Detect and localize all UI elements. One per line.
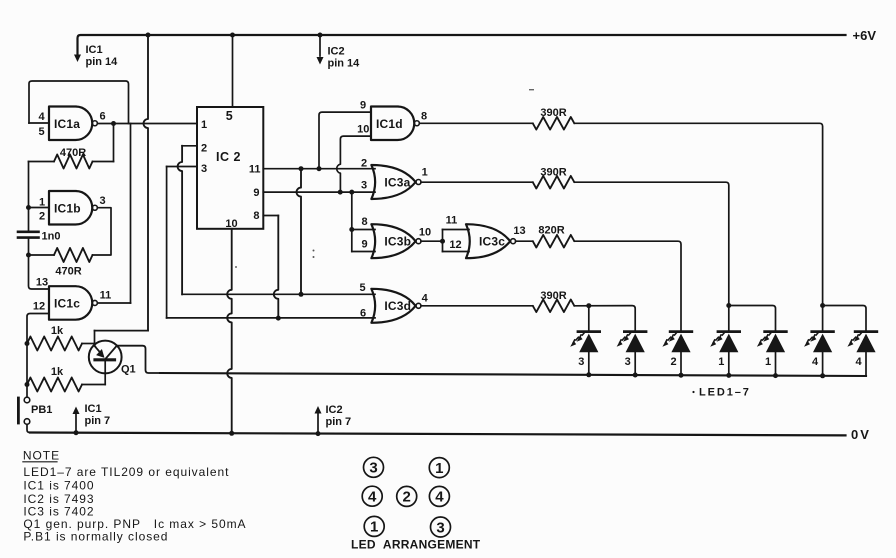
wire IC1d output to 390R <box>419 122 532 124</box>
wire IC1b output to 470R (lower) <box>93 208 112 255</box>
svg-text:IC1b: IC1b <box>54 201 81 215</box>
junction IC3b pin 8 stub <box>349 227 354 232</box>
wire IC2 pin 5 from +6V rail <box>232 35 234 107</box>
arrangement circle 3 <box>431 517 451 537</box>
wire +6V supply rail <box>78 35 846 54</box>
svg-text:5: 5 <box>226 109 233 123</box>
junction LED1a feed <box>726 303 731 308</box>
svg-text:2: 2 <box>403 489 411 506</box>
svg-text:12: 12 <box>33 301 45 313</box>
svg-text:PB1: PB1 <box>31 404 52 416</box>
svg-text:2: 2 <box>39 211 45 223</box>
svg-text:10: 10 <box>357 124 369 136</box>
svg-text:3: 3 <box>99 195 105 207</box>
wire IC1d pin 9 down to pin11 node <box>319 112 371 169</box>
wire IC1a output / clock node to IC2 pin 1 <box>97 123 196 125</box>
svg-text:11: 11 <box>446 215 458 227</box>
wire IC2 pin 2 to IC3d pin 5 net (vertical, hops pin3 wire) <box>182 145 197 147</box>
IC IC2 (7493 counter) body <box>197 107 263 229</box>
svg-text:820R: 820R <box>538 225 564 237</box>
svg-text:IC1: IC1 <box>85 403 102 415</box>
resistor 1k (upper, Q1 emitter) <box>27 337 82 351</box>
svg-text:3: 3 <box>361 180 367 192</box>
junction LED3a feed <box>586 303 591 308</box>
transistor Q1 (PNP) <box>89 341 122 374</box>
NOR gate IC3c <box>466 224 510 258</box>
wire IC1d pin 10 down to pin9 node (hops pin2-of-IC3a wire) <box>337 136 371 192</box>
svg-text:6: 6 <box>360 307 366 319</box>
wire 390R row2 to LED1 pair <box>574 182 729 305</box>
wire IC2 pin 9 to IC3a pin 3 <box>263 191 375 193</box>
NAND gate IC1c <box>49 286 92 320</box>
svg-text:5: 5 <box>359 282 365 294</box>
wire IC2 pin 10 to 0V (hops three horizontals) <box>227 229 232 433</box>
NOR gate IC3d <box>371 289 415 323</box>
svg-text:2: 2 <box>201 143 207 155</box>
NOR gate IC3a <box>371 165 415 199</box>
arrangement circle 4 <box>429 486 449 506</box>
svg-text:3: 3 <box>436 519 444 536</box>
svg-text:390R: 390R <box>540 290 566 302</box>
wire IC3b output to IC3c tied inputs <box>421 240 443 242</box>
NAND gate IC1d <box>371 107 414 141</box>
wire IC1a feedback loop (output to input) <box>29 81 129 124</box>
svg-text:NOTE: NOTE <box>23 449 60 463</box>
junction 1k lower / PB1 column <box>25 382 30 387</box>
wire LED1 pair link <box>729 306 776 332</box>
wire IC1c output pin 11 up to clock node <box>97 302 130 304</box>
svg-text:1k: 1k <box>51 325 64 337</box>
wire PB1 to 0V rail <box>27 424 33 432</box>
svg-text:0V: 0V <box>851 427 871 442</box>
LED cathode bus (to Q1 collector) <box>160 373 866 376</box>
svg-text:IC1a: IC1a <box>54 117 80 131</box>
resistor 470R (lower oscillator) <box>29 254 55 256</box>
svg-text:IC3d: IC3d <box>384 299 411 313</box>
svg-text:LED ARRANGEMENT: LED ARRANGEMENT <box>351 538 481 552</box>
arrangement circle 4 <box>362 486 382 506</box>
wire Q1 collector to LED cathode bus <box>117 346 160 373</box>
wire IC1c pin 12 to PB1 column <box>27 314 49 398</box>
resistor 390R (row 4, LED3 pair) <box>533 300 575 313</box>
svg-text:4: 4 <box>368 489 377 506</box>
resistor 390R (row 2, LED1 pair) <box>533 176 575 189</box>
svg-text:13: 13 <box>513 225 525 237</box>
svg-text:IC 2: IC 2 <box>216 150 241 164</box>
junction 1k upper / PB1 column <box>25 341 30 346</box>
svg-text:IC3b: IC3b <box>384 235 411 249</box>
svg-text:9: 9 <box>253 187 259 199</box>
resistor 390R (row 1, LED4 pair) <box>533 117 575 130</box>
svg-text:1k: 1k <box>51 366 64 378</box>
scan speck dash <box>529 89 534 90</box>
wire left oscillator column (470R to IC1b input to C1) <box>28 162 30 232</box>
svg-text:1: 1 <box>435 460 443 477</box>
svg-text:390R: 390R <box>540 166 566 178</box>
svg-text:3: 3 <box>578 356 584 368</box>
IC1 pin 14 supply arrow <box>74 55 81 63</box>
svg-text:470R: 470R <box>60 147 86 159</box>
junction pin11 / IC1d pin 9 vertical <box>317 166 322 171</box>
junction C1 / 470R lower <box>26 253 31 258</box>
switch PB1 (push-button, normally closed) <box>24 397 30 403</box>
resistor 1k (lower, Q1 base) <box>27 378 82 392</box>
wire 820R to LED2 <box>574 241 681 331</box>
junction pin9 wire / IC3b input vertical <box>349 190 354 195</box>
IC2 pin 14 supply arrow <box>318 33 323 38</box>
svg-text:LED1–7 are TIL209 or equivalen: LED1–7 are TIL209 or equivalent <box>23 465 229 479</box>
svg-text:3: 3 <box>201 163 207 175</box>
svg-text:IC1d: IC1d <box>376 117 403 131</box>
LED 3 (first) <box>578 330 600 333</box>
svg-text:4: 4 <box>422 293 429 305</box>
arrangement circle 1 <box>429 458 449 478</box>
wire C1 bottom node to IC1c pin 13 <box>29 255 50 289</box>
svg-text:3: 3 <box>369 460 377 477</box>
junction pin9 wire / IC1d pin10 vertical <box>338 190 343 195</box>
capacitor C1 1n0 <box>18 231 39 234</box>
svg-text:P.B1 is normally closed: P.B1 is normally closed <box>23 530 168 544</box>
svg-text:10: 10 <box>419 227 431 239</box>
arrangement circle 1 <box>364 516 384 536</box>
svg-text:13: 13 <box>36 277 48 289</box>
svg-text:1n0: 1n0 <box>42 231 61 243</box>
svg-text:IC3a: IC3a <box>384 175 410 189</box>
svg-text:8: 8 <box>253 210 259 222</box>
junction IC1b input node <box>26 205 31 210</box>
wire LED4 pair link <box>823 306 866 332</box>
wire IC2 pin 11 to IC3a pin 2 <box>263 168 375 170</box>
junction LED4a feed <box>820 303 825 308</box>
LED 1 (second) <box>765 330 787 333</box>
scan speck colon <box>313 250 315 252</box>
resistor 820R (row 3, LED2) <box>533 235 575 248</box>
junction +6V / Q1 emitter feed <box>146 33 151 38</box>
wire +6V to Q1 emitter (long vertical, hops clock line) <box>144 35 149 331</box>
svg-text:1: 1 <box>422 166 428 178</box>
IC1 pin 7 ground arrow <box>74 430 79 435</box>
svg-text:1: 1 <box>370 519 378 536</box>
wire IC3a output to 390R <box>421 181 533 183</box>
svg-text:Q1: Q1 <box>121 364 136 376</box>
svg-text:3: 3 <box>625 356 631 368</box>
svg-text:IC1: IC1 <box>86 44 103 56</box>
svg-text:IC1c: IC1c <box>54 296 80 310</box>
svg-text:11: 11 <box>249 164 261 176</box>
svg-text:390R: 390R <box>540 107 566 119</box>
junction +6V / IC2 pin 5 <box>230 33 235 38</box>
wire IC1c output up to clock node <box>130 124 132 304</box>
wire IC3d output to 390R <box>421 305 533 307</box>
svg-text:4: 4 <box>435 489 444 506</box>
svg-text:4: 4 <box>812 356 819 368</box>
junction IC1a output node <box>111 121 116 126</box>
svg-text:1: 1 <box>718 356 724 368</box>
svg-text:9: 9 <box>361 239 367 251</box>
LED 4 (first) <box>812 330 834 333</box>
svg-text:IC2: IC2 <box>326 404 343 416</box>
wire 390R row1 to LED4 pair <box>574 123 822 305</box>
svg-text:1: 1 <box>39 196 45 208</box>
wire IC3d pin 5 net horizontal <box>182 293 375 295</box>
svg-text:pin 14: pin 14 <box>328 58 361 70</box>
svg-text:6: 6 <box>99 111 105 123</box>
wire IC3d pin 6 net horizontal <box>167 317 375 319</box>
svg-text:IC1 is 7400: IC1 is 7400 <box>23 479 94 493</box>
svg-text:9: 9 <box>360 100 366 112</box>
svg-text:pin 14: pin 14 <box>86 56 119 68</box>
svg-text:pin 7: pin 7 <box>85 415 111 427</box>
svg-text:LED1–7: LED1–7 <box>699 387 751 399</box>
svg-text:12: 12 <box>449 239 461 251</box>
svg-text:4: 4 <box>38 111 45 123</box>
svg-text:11: 11 <box>100 290 112 302</box>
arrangement circle 3 <box>364 457 384 477</box>
wire pin11 node down to IC3d pin5 net (hops pin9 wire) <box>297 169 301 295</box>
wire IC3c output to 820R <box>516 240 533 242</box>
LED 4 (second) <box>855 330 877 333</box>
wire IC1a inputs (pins 4,5 tied) <box>29 122 49 124</box>
svg-text:8: 8 <box>361 216 367 228</box>
wire 0V rail <box>30 433 846 436</box>
svg-text:4: 4 <box>855 356 862 368</box>
wire IC1b inputs (pins 1,2 tied) <box>29 207 50 209</box>
wire IC2 pin 8 to IC3d pin 6 net (hops pin5 wire) <box>263 215 278 217</box>
arrangement circle 2 <box>397 486 417 506</box>
svg-text:IC3c: IC3c <box>479 235 505 249</box>
svg-text:+6V: +6V <box>853 28 877 43</box>
NOR gate IC3b <box>371 224 415 258</box>
svg-text:IC2: IC2 <box>328 46 345 58</box>
wire IC2 pin 3 to IC3d pin 6 net <box>167 166 197 168</box>
junction pin11 / vertical to IC3d pin5 <box>299 166 304 171</box>
LED 1 (first) <box>718 330 740 333</box>
LED 3 (second) <box>624 330 646 333</box>
LED 2 <box>670 330 692 333</box>
svg-text:1: 1 <box>201 119 207 131</box>
scan speck dot <box>235 266 237 268</box>
wire 390R row4 to LED3 pair <box>574 306 635 332</box>
resistor 470R (IC1a feedback RC) <box>29 161 55 163</box>
svg-text:pin 7: pin 7 <box>326 416 352 428</box>
svg-text:5: 5 <box>38 126 44 138</box>
svg-text:470R: 470R <box>55 266 81 278</box>
IC2 pin 7 ground arrow <box>316 431 321 436</box>
op... NAND gate IC1a <box>49 107 92 141</box>
NAND gate IC1b <box>49 191 92 225</box>
svg-text:8: 8 <box>421 111 427 123</box>
junction IC3c input tie <box>440 239 445 244</box>
svg-text:2: 2 <box>361 157 367 169</box>
svg-text:2: 2 <box>670 356 676 368</box>
wire IC3b tied inputs from pin9 node <box>351 192 353 251</box>
svg-text:1: 1 <box>765 356 771 368</box>
